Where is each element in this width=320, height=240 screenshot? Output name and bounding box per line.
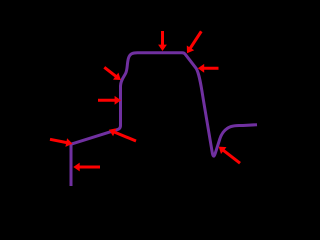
arrow A2 (plateau right corner, pointing down-left) <box>187 31 202 53</box>
action potential curve (purple trace) <box>71 53 257 186</box>
arrow A4 (upper rising phase, pointing down-right) <box>104 67 121 80</box>
arrow A9 (hyperpolarization dip, pointing up-left) <box>219 147 240 164</box>
arrow A7 (stimulus junction, pointing right) <box>50 138 73 147</box>
arrow A8 (stimulus artifact, pointing left) <box>73 163 100 172</box>
arrow A5 (rising phase, pointing right) <box>98 96 121 105</box>
arrow A1 (peak plateau, pointing down) <box>158 31 167 51</box>
arrow A6 (threshold corner, pointing up-left) <box>109 128 136 141</box>
arrow A3 (repolarization slope, pointing left) <box>198 64 219 73</box>
